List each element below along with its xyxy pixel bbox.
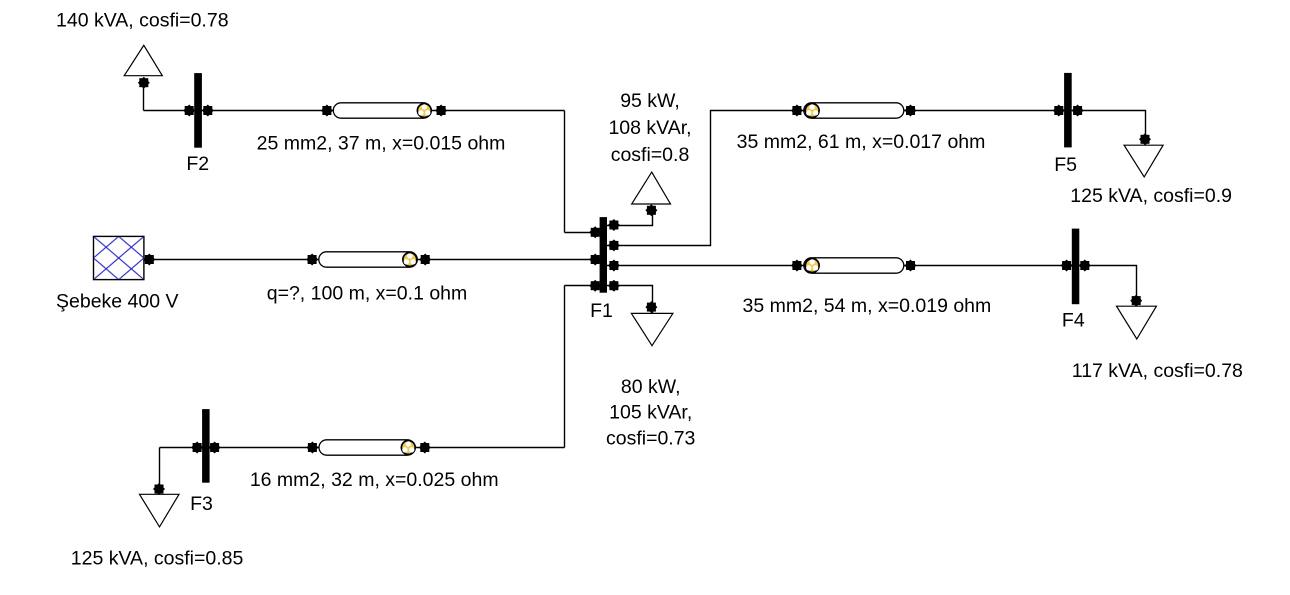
- svg-text:F2: F2: [186, 153, 209, 175]
- node: bus F5 left: [1053, 105, 1065, 117]
- svg-text:125 kVA, cosfi=0.85: 125 kVA, cosfi=0.85: [71, 548, 244, 570]
- node: above bottom load LB1: [645, 301, 657, 313]
- source: Şebeke 400 V box: [94, 236, 144, 279]
- cable C5: 16 mm2 32 m: [319, 440, 415, 455]
- node: under load L2: [138, 77, 150, 89]
- bus F3: [202, 409, 210, 483]
- load LT1 triangle (95 kW, up): [632, 172, 671, 204]
- node: cable C5 left: [306, 442, 318, 454]
- svg-text:105 kVAr,: 105 kVAr,: [609, 402, 692, 424]
- node: cable C1 right: [435, 105, 447, 117]
- svg-text:F4: F4: [1062, 310, 1085, 332]
- cable C4: 35 mm2 54 m: [804, 258, 904, 273]
- node: cable C2 right: [419, 254, 431, 266]
- wire: left feeder vertical drop to F1 row: [564, 111, 566, 233]
- bus F5: [1064, 73, 1072, 147]
- node: bus F3 left: [191, 442, 203, 454]
- svg-text:117 kVA, cosfi=0.78: 117 kVA, cosfi=0.78: [1072, 360, 1243, 382]
- node: grid source output: [143, 254, 155, 266]
- node: bus F1 right 4: [608, 280, 620, 292]
- load L3 triangle (125 kVA 0.85, down): [140, 494, 180, 527]
- node: cable C3 left: [791, 105, 803, 117]
- wire: bus F1 to top load stem: [607, 206, 653, 226]
- wire: bus F1 to cable C4: [607, 265, 805, 267]
- svg-text:125 kVA, cosfi=0.9: 125 kVA, cosfi=0.9: [1070, 185, 1232, 207]
- node: bus F1 right 1: [608, 219, 620, 231]
- node: cable C2 left: [306, 254, 318, 266]
- svg-text:16 mm2, 32 m, x=0.025 ohm: 16 mm2, 32 m, x=0.025 ohm: [250, 469, 499, 491]
- wire: cable C1 to left feeder drop: [431, 110, 565, 112]
- node: bus F4 right: [1079, 260, 1091, 272]
- node: bus F1 left bottom: [589, 280, 601, 292]
- svg-text:95 kW,: 95 kW,: [620, 90, 680, 112]
- wire: grid source to cable C2: [144, 259, 320, 261]
- svg-text:cosfi=0.8: cosfi=0.8: [611, 144, 690, 166]
- wire: bus F1 up-feeder to top-right branch: [607, 111, 805, 246]
- wire: cable C4 to bus F4 and load L4 drop: [903, 266, 1137, 306]
- bus F1: [600, 217, 607, 293]
- load LB1 triangle (80 kW, down): [631, 313, 673, 345]
- node: bus F3 right: [209, 442, 221, 454]
- node: cable C4 right: [905, 260, 917, 272]
- load L2 triangle (140 kVA): [124, 45, 162, 75]
- svg-text:F3: F3: [190, 493, 213, 515]
- wire: cable C2 to bus F1: [417, 259, 600, 261]
- svg-text:F5: F5: [1054, 154, 1077, 176]
- svg-text:25 mm2, 37 m, x=0.015 ohm: 25 mm2, 37 m, x=0.015 ohm: [257, 132, 506, 154]
- svg-text:35 mm2, 54 m, x=0.019 ohm: 35 mm2, 54 m, x=0.019 ohm: [743, 295, 992, 317]
- cable C2: q=? 100 m: [319, 252, 418, 267]
- node: above load L5: [1139, 133, 1151, 145]
- node: bus F4 left: [1061, 260, 1073, 272]
- load L4 triangle (117 kVA, down): [1117, 306, 1157, 339]
- wire: cable C3 to bus F5 and load L5 drop: [903, 111, 1146, 145]
- node: cable C3 right: [905, 105, 917, 117]
- svg-text:108 kVAr,: 108 kVAr,: [608, 117, 691, 139]
- node: cable C1 left: [321, 105, 333, 117]
- wire: load L2 stem down to top-left run: [143, 83, 145, 111]
- cable C1: 25 mm2 37 m: [333, 103, 431, 118]
- svg-text:cosfi=0.73: cosfi=0.73: [606, 427, 695, 449]
- node: bus F2 left: [183, 105, 195, 117]
- svg-text:q=?, 100 m, x=0.1 ohm: q=?, 100 m, x=0.1 ohm: [267, 283, 468, 305]
- load L5 triangle (125 kVA 0.9, down): [1124, 145, 1163, 177]
- wire: left feeder into bus F1: [565, 232, 601, 234]
- node: bus F5 right: [1072, 105, 1084, 117]
- node: bus F1 left middle: [589, 254, 601, 266]
- node: above load L4: [1130, 295, 1142, 307]
- cable C3: 35 mm2 61 m: [804, 103, 904, 118]
- wire: bottom feeder vertical drop: [564, 286, 566, 448]
- wire: bus F1 left to bottom feeder: [565, 285, 601, 287]
- node: above load L3: [153, 483, 165, 495]
- node: bus F1 right 2: [608, 239, 620, 251]
- bus F2: [194, 73, 202, 148]
- svg-text:80 kW,: 80 kW,: [621, 376, 681, 398]
- svg-text:F1: F1: [590, 300, 613, 322]
- svg-text:Şebeke 400 V: Şebeke 400 V: [56, 291, 179, 313]
- bus F4: [1072, 229, 1080, 305]
- svg-text:140 kVA, cosfi=0.78: 140 kVA, cosfi=0.78: [56, 9, 229, 31]
- node: bus F2 right: [202, 105, 214, 117]
- node: bus F1 right 3: [608, 260, 620, 272]
- wire: bottom run from load L3 corner through bus F3 and cable C5: [160, 447, 565, 449]
- node: cable C5 right: [419, 442, 431, 454]
- wire: load L3 stem: [159, 448, 161, 494]
- node: cable C4 left: [791, 260, 803, 272]
- wire: bus F1 to bottom load stem: [607, 286, 653, 313]
- svg-text:35 mm2, 61 m, x=0.017 ohm: 35 mm2, 61 m, x=0.017 ohm: [737, 131, 986, 153]
- node: under top load LT1: [645, 204, 657, 216]
- node: bus F1 left top: [589, 226, 601, 238]
- wire: top-left run from stem through bus F2 to cable C1: [144, 110, 335, 112]
